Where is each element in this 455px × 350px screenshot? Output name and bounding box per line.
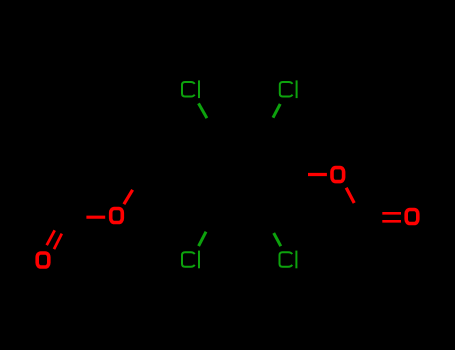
left carbonyl oxygen label O: [37, 253, 49, 267]
double bond C=O line 1 (left carbonyl): [54, 234, 62, 250]
chlorine label Cl (top-right, ring C3 substituent): [280, 80, 298, 98]
bond C6-Cl green half-bond (bottom-left): [199, 232, 206, 246]
bond O-C(=O) red half-bond (diagonal, right ester): [346, 188, 354, 203]
bond C5-Cl green half-bond (bottom-right): [274, 233, 281, 246]
double bond C=O line 1 (right carbonyl): [382, 212, 401, 215]
chlorine label Cl (top-left, ring C2 substituent): [182, 80, 200, 98]
bond C3-Cl green half-bond (top-right): [273, 104, 280, 118]
chlorine label Cl (bottom-right, ring C5 substituent): [280, 251, 298, 269]
left ester oxygen label O (benzylic acetate O): [111, 209, 123, 223]
double bond C=O line 2 (left carbonyl): [47, 230, 55, 245]
double bond C=O line 2 (right carbonyl): [382, 220, 401, 223]
bond C1(ring)-O red half-bond (horizontal, right ester): [308, 173, 327, 176]
chlorine label Cl (bottom-left, ring C6 substituent): [182, 251, 200, 269]
bond O-C(=O) red half-bond (horizontal, left ester): [86, 216, 105, 219]
right carbonyl oxygen label O: [406, 210, 418, 224]
bond CH2-O red half-bond (diagonal, left ester): [124, 190, 133, 204]
right ester oxygen label O (aryl acetate O): [332, 168, 344, 182]
bond C2-Cl green half-bond (top-left): [199, 103, 207, 118]
